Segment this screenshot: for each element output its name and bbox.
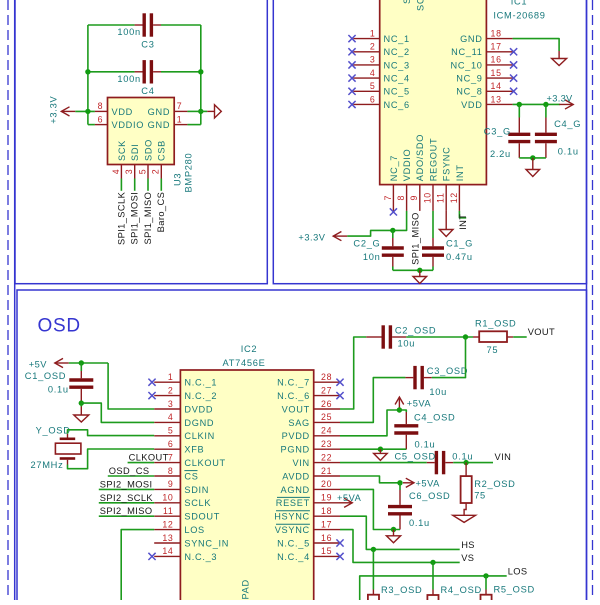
svg-text:6: 6 xyxy=(98,114,104,124)
svg-text:N.C._7: N.C._7 xyxy=(277,378,310,388)
wire Y_OSD to CLKIN pin5 xyxy=(68,430,155,436)
IC2 pin 20 AGND xyxy=(314,488,340,490)
svg-text:20: 20 xyxy=(321,479,332,489)
ground C4_OSD xyxy=(374,449,388,460)
no-connect pin 15 xyxy=(510,75,517,82)
wire R3_OSD feed xyxy=(372,549,374,589)
wire C4 rail left xyxy=(88,71,135,73)
svg-text:10: 10 xyxy=(162,493,173,503)
no-connect pin 3 xyxy=(348,61,355,68)
U3 pin 8 VDD xyxy=(95,110,108,112)
svg-text:22: 22 xyxy=(321,452,332,462)
power output arrow GND flag xyxy=(201,110,207,112)
svg-text:NC_2: NC_2 xyxy=(384,47,410,57)
svg-text:VIN: VIN xyxy=(292,458,309,468)
IC2 pin 15 N.C._4 xyxy=(314,555,340,557)
svg-text:XFB: XFB xyxy=(184,445,204,455)
IC1 pin 18 GND xyxy=(486,38,512,40)
wire REGOUT pin10 to C1_G xyxy=(432,211,434,238)
svg-text:SAG: SAG xyxy=(288,418,310,428)
svg-text:SDOUT: SDOUT xyxy=(184,512,220,522)
svg-text:N.C._1: N.C._1 xyxy=(184,378,217,388)
wire SPI1_MOSI xyxy=(134,179,136,191)
IC2 pin 26 VOUT xyxy=(314,408,340,410)
svg-text:VSYNC: VSYNC xyxy=(275,525,310,535)
svg-text:C3: C3 xyxy=(141,39,154,49)
section box IMU xyxy=(273,0,586,284)
svg-text:5: 5 xyxy=(137,169,147,175)
wire right vertical bus xyxy=(200,25,202,125)
op-amp U3 BMP280 body xyxy=(108,98,175,165)
svg-text:7: 7 xyxy=(177,101,183,111)
svg-text:NC_3: NC_3 xyxy=(384,60,410,70)
svg-text:C5_OSD: C5_OSD xyxy=(395,452,436,462)
IC1 pin 9 ADO/SDO xyxy=(419,185,421,211)
wire CLKOUT pin7 xyxy=(128,462,155,464)
wire AGND pin20 to ground xyxy=(340,489,400,529)
IC2 pin 8 CS xyxy=(154,475,180,477)
svg-text:8: 8 xyxy=(168,466,174,476)
svg-text:NC_4: NC_4 xyxy=(384,74,410,84)
IC2 pin 2 N.C._2 xyxy=(154,395,180,397)
svg-text:CSB: CSB xyxy=(157,140,167,161)
svg-text:PGND: PGND xyxy=(281,445,310,455)
no-connect IC2 pin14 xyxy=(148,553,155,560)
svg-text:NC_5: NC_5 xyxy=(384,87,410,97)
IC1 pin 3 NC_3 xyxy=(353,64,379,66)
ground R2_OSD xyxy=(464,503,466,515)
svg-text:1: 1 xyxy=(370,28,376,38)
sheet border left xyxy=(14,0,16,600)
svg-text:GND: GND xyxy=(460,34,483,44)
IC2 pin 4 DGND xyxy=(154,421,180,423)
junction VS R4_OSD xyxy=(430,560,435,565)
svg-text:26: 26 xyxy=(321,399,332,409)
U3 pin 7 GND xyxy=(174,110,187,112)
no-connect pin 5 xyxy=(348,88,355,95)
svg-text:R1_OSD: R1_OSD xyxy=(475,319,516,329)
svg-text:13: 13 xyxy=(491,94,502,104)
svg-text:GND: GND xyxy=(148,120,171,130)
svg-text:13: 13 xyxy=(162,533,173,543)
IC2 pin 19 RESET xyxy=(314,502,340,504)
wire SPI1_SCLK xyxy=(120,179,122,191)
svg-text:VDDIO: VDDIO xyxy=(402,149,412,182)
ground C6_OSD xyxy=(386,530,400,543)
svg-text:+5VA: +5VA xyxy=(337,493,362,503)
svg-text:N.C._5: N.C._5 xyxy=(277,538,310,548)
IC1 pin 10 REGOUT xyxy=(432,185,434,211)
svg-text:4: 4 xyxy=(370,68,376,78)
svg-text:GND: GND xyxy=(148,107,171,117)
svg-text:HS: HS xyxy=(461,540,475,550)
no-connect pin 7 NC_7 xyxy=(390,208,397,215)
no-connect pin 16 xyxy=(510,61,517,68)
svg-text:C2_OSD: C2_OSD xyxy=(395,325,436,335)
svg-text:6: 6 xyxy=(168,439,174,449)
wire R1_OSD to VOUT xyxy=(513,336,527,338)
IC2 pin 7 CLKOUT xyxy=(154,462,180,464)
capacitor C4 xyxy=(144,60,151,83)
power +5V port xyxy=(55,358,69,367)
svg-text:SDO: SDO xyxy=(143,139,153,161)
resistor R2_OSD xyxy=(465,463,467,477)
wire OSD_CS pin8 xyxy=(108,475,154,477)
svg-text:ADO/SDO: ADO/SDO xyxy=(415,134,425,181)
svg-text:C1_G: C1_G xyxy=(446,239,473,249)
wire SPI2_SCLK pin10 xyxy=(99,502,154,504)
U3 pin 6 VDDIO xyxy=(95,124,108,126)
svg-text:VIN: VIN xyxy=(495,452,512,462)
wire C3_G top xyxy=(518,104,520,117)
svg-text:U3: U3 xyxy=(172,173,182,186)
svg-text:R5_OSD: R5_OSD xyxy=(494,584,535,594)
svg-text:REGOUT: REGOUT xyxy=(428,138,438,182)
svg-text:27: 27 xyxy=(321,385,332,395)
sheet margin dashed left xyxy=(7,0,9,600)
wire C4_G top xyxy=(545,104,547,117)
wire R5_OSD feed xyxy=(485,576,487,590)
IC1 pin 6 NC_6 xyxy=(353,103,379,105)
junction PGND ground xyxy=(378,447,383,452)
IC2 pin 25 SAG xyxy=(314,421,340,423)
IC2 pin 27 N.C._6 xyxy=(314,395,340,397)
wire C3_OSD to VOUT node xyxy=(432,337,466,378)
IC2 pin 23 PGND xyxy=(314,448,340,450)
svg-text:5: 5 xyxy=(370,81,376,91)
svg-text:Y_OSD: Y_OSD xyxy=(36,426,71,436)
svg-text:18: 18 xyxy=(321,506,332,516)
svg-text:C4_OSD: C4_OSD xyxy=(414,413,455,423)
svg-text:CS: CS xyxy=(184,471,198,481)
svg-text:SDI: SDI xyxy=(130,144,140,161)
svg-text:C6_OSD: C6_OSD xyxy=(409,491,450,501)
svg-text:CLKOUT: CLKOUT xyxy=(129,453,169,463)
capacitor C4_G xyxy=(535,134,557,141)
svg-text:12: 12 xyxy=(449,192,459,203)
svg-text:5: 5 xyxy=(168,426,174,436)
IC2 pin 9 SDIN xyxy=(154,488,180,490)
no-connect IC2 pin27 xyxy=(336,392,343,399)
wire PVDD pin24 to 5VA xyxy=(340,410,399,436)
svg-text:SDIN: SDIN xyxy=(184,485,209,495)
wire INT pin12 xyxy=(459,211,466,218)
capacitor C3_OSD xyxy=(415,366,422,389)
svg-text:7: 7 xyxy=(383,195,393,201)
IC2 pin 10 SCLK xyxy=(154,502,180,504)
svg-text:VDD: VDD xyxy=(112,107,134,117)
resistor R3_OSD xyxy=(372,590,374,595)
svg-text:OSD: OSD xyxy=(38,316,81,337)
resistor R4_OSD xyxy=(432,590,434,596)
svg-text:VOUT: VOUT xyxy=(282,404,310,414)
svg-text:R2_OSD: R2_OSD xyxy=(474,479,515,489)
section box OSD xyxy=(17,290,587,605)
svg-text:+5VA: +5VA xyxy=(416,478,441,488)
IC1 pin 17 NC_11 xyxy=(486,51,512,53)
wire VIN pin22 to C5_OSD xyxy=(340,462,427,464)
svg-text:NC_6: NC_6 xyxy=(384,100,410,110)
svg-text:27MHz: 27MHz xyxy=(31,460,64,470)
svg-text:NC_8: NC_8 xyxy=(456,87,482,97)
svg-text:0.1u: 0.1u xyxy=(452,452,473,462)
IC2 pin 5 CLKIN xyxy=(154,435,180,437)
svg-text:SPI2_MOSI: SPI2_MOSI xyxy=(100,479,153,489)
svg-text:R3_OSD: R3_OSD xyxy=(381,585,422,595)
svg-text:10: 10 xyxy=(422,192,432,203)
IC2 pin 14 N.C._3 xyxy=(154,555,180,557)
svg-text:1: 1 xyxy=(177,114,183,124)
svg-text:PVDD: PVDD xyxy=(282,431,310,441)
svg-text:+5VA: +5VA xyxy=(407,398,432,408)
IC2 pin 16 N.C._5 xyxy=(314,542,340,544)
no-connect pin 14 xyxy=(510,88,517,95)
svg-text:INT: INT xyxy=(458,214,468,230)
svg-text:17: 17 xyxy=(321,519,332,529)
wire VSYNC pin17 to VS xyxy=(340,530,460,563)
svg-text:SPI1_MISO: SPI1_MISO xyxy=(143,192,153,245)
svg-text:C2_G: C2_G xyxy=(353,239,380,249)
wire C5_OSD to VIN label xyxy=(453,462,493,464)
power +3.3V port (barometer) xyxy=(61,107,75,116)
svg-text:SCLK: SCLK xyxy=(184,498,211,508)
svg-text:NC_7: NC_7 xyxy=(389,155,399,181)
svg-text:14: 14 xyxy=(162,546,173,556)
svg-text:C4_G: C4_G xyxy=(554,119,581,129)
capacitor C2_OSD xyxy=(383,325,390,348)
svg-text:VDDIO: VDDIO xyxy=(112,120,145,130)
wire VDD pin13 rail xyxy=(513,103,560,105)
svg-text:IC2: IC2 xyxy=(241,344,258,354)
svg-text:R4_OSD: R4_OSD xyxy=(441,585,482,595)
wire GND pin7 to bus xyxy=(187,110,200,112)
svg-text:7: 7 xyxy=(168,452,174,462)
svg-text:SPI1_SCLK: SPI1_SCLK xyxy=(116,191,126,245)
power +5VA port (AVDD) xyxy=(403,478,414,487)
IC2 pin 11 SDOUT xyxy=(154,515,180,517)
svg-text:12: 12 xyxy=(162,519,173,529)
IC1 pin 11 FSYNC xyxy=(445,185,447,211)
svg-text:OSD_CS: OSD_CS xyxy=(109,466,150,476)
IC2 pin 6 XFB xyxy=(154,448,180,450)
svg-text:NC_10: NC_10 xyxy=(450,60,482,70)
IC2 pin 1 N.C._1 xyxy=(154,381,180,383)
junction VDD C3_G xyxy=(517,102,522,107)
svg-text:Baro_CS: Baro_CS xyxy=(156,192,166,233)
wire +5V to DVDD pin3 xyxy=(108,363,154,409)
svg-text:AT7456E: AT7456E xyxy=(223,358,266,368)
wire C1_OSD top xyxy=(80,363,82,371)
svg-text:N.C._2: N.C._2 xyxy=(184,391,217,401)
svg-text:+3.3V: +3.3V xyxy=(298,233,325,243)
U3 pin 3 SDI xyxy=(134,165,136,179)
svg-text:24: 24 xyxy=(321,426,332,436)
junction +5V C1_OSD xyxy=(79,360,84,365)
svg-text:NC_11: NC_11 xyxy=(451,47,482,57)
svg-text:9: 9 xyxy=(168,479,174,489)
no-connect IC2 pin16 xyxy=(336,539,343,546)
wire PGND pin23 rail xyxy=(340,448,406,450)
svg-text:AGND: AGND xyxy=(281,485,310,495)
svg-text:DVDD: DVDD xyxy=(184,404,213,414)
svg-text:CLKIN: CLKIN xyxy=(184,431,215,441)
no-connect pin 2 xyxy=(348,48,355,55)
svg-text:IC1: IC1 xyxy=(511,0,528,7)
capacitor C3_G xyxy=(508,134,530,141)
resistor R1_OSD xyxy=(473,336,513,338)
svg-text:+3.3V: +3.3V xyxy=(49,96,59,124)
svg-text:VDD: VDD xyxy=(461,100,483,110)
svg-text:BMP280: BMP280 xyxy=(183,153,193,193)
wire left vertical bus xyxy=(87,25,89,125)
no-connect IC2 pin28 xyxy=(336,379,343,386)
ground C2_G C1_G xyxy=(413,270,427,283)
svg-text:18: 18 xyxy=(491,28,502,38)
IC1 pin 7 NC_7 xyxy=(392,185,394,211)
svg-text:C4: C4 xyxy=(141,86,154,96)
capacitor C2_G xyxy=(382,248,404,255)
capacitor C4_OSD xyxy=(394,426,418,433)
svg-text:9: 9 xyxy=(409,195,419,201)
svg-text:NC_1: NC_1 xyxy=(384,34,410,44)
wire VDDIO pin8 to 3V3 rail xyxy=(347,211,406,236)
svg-text:PAD: PAD xyxy=(241,579,251,599)
junction VIN R2_OSD xyxy=(463,460,468,465)
svg-text:AVDD: AVDD xyxy=(282,471,310,481)
overline HSYNC pin18 xyxy=(276,510,310,512)
ground C3_G C4_G xyxy=(526,158,540,177)
sheet margin dashed right xyxy=(592,0,594,600)
capacitor C3 xyxy=(144,13,151,36)
svg-text:3: 3 xyxy=(370,55,376,65)
IC2 pin 12 LOS xyxy=(154,529,180,531)
junction VDD C4_G xyxy=(543,102,548,107)
junction HS R3_OSD xyxy=(371,547,376,552)
overline RESET pin19 xyxy=(277,496,310,498)
power +5VA port (RESET pin19) xyxy=(340,498,353,507)
svg-text:75: 75 xyxy=(487,345,499,355)
IC1 pin 14 NC_8 xyxy=(486,90,512,92)
svg-text:16: 16 xyxy=(321,533,332,543)
capacitor C1_G xyxy=(422,248,444,255)
IC2 pin 24 PVDD xyxy=(314,435,340,437)
wire VOUT pin26 to C2_OSD xyxy=(340,337,366,409)
wire Y_OSD to XFB pin6 xyxy=(68,449,155,469)
svg-text:SYNC_IN: SYNC_IN xyxy=(184,538,229,548)
IC1 pin 16 NC_10 xyxy=(486,64,512,66)
svg-text:SPI2_SCLK: SPI2_SCLK xyxy=(100,493,154,503)
svg-text:1: 1 xyxy=(168,372,174,382)
IC2 pin 18 HSYNC xyxy=(314,515,340,517)
svg-text:10n: 10n xyxy=(363,252,381,262)
IC1 pin 1 NC_1 xyxy=(353,38,379,40)
junction 5VA C4_OSD xyxy=(397,407,402,412)
wire C3_G C4_G bottom rail xyxy=(519,157,546,159)
no-connect IC2 pin2 xyxy=(148,392,155,399)
power +5VA port (PVDD) xyxy=(395,397,404,410)
svg-text:4: 4 xyxy=(111,169,121,175)
IC2 pin 13 SYNC_IN xyxy=(154,542,180,544)
junction ground rail G xyxy=(530,155,535,160)
overline CS pin8 xyxy=(184,470,197,472)
U3 pin 2 CSB xyxy=(160,165,162,179)
svg-text:SPI2_MISO: SPI2_MISO xyxy=(100,506,153,516)
svg-text:CLKOUT: CLKOUT xyxy=(184,458,225,468)
junction C2_G top xyxy=(390,228,395,233)
svg-text:SPI1_MISO: SPI1_MISO xyxy=(410,212,420,265)
junction ground rail xyxy=(417,268,422,273)
IC1 pin 8 VDDIO xyxy=(406,185,408,211)
IC1 pin 15 NC_9 xyxy=(486,77,512,79)
svg-text:8: 8 xyxy=(396,195,406,201)
svg-text:16: 16 xyxy=(491,55,502,65)
wire SPI1_MISO xyxy=(147,179,149,191)
wire LOS bottom rail xyxy=(360,576,507,601)
svg-text:N.C._3: N.C._3 xyxy=(184,552,217,562)
no-connect pin 17 xyxy=(510,48,517,55)
no-connect pin 4 xyxy=(348,75,355,82)
ground FSYNC pin11 xyxy=(445,211,447,230)
wire C2_G top xyxy=(392,230,394,238)
svg-text:0.1u: 0.1u xyxy=(409,518,430,528)
U3 pin 1 GND xyxy=(174,124,187,126)
wire R4_OSD feed xyxy=(432,562,434,589)
svg-text:N.C._6: N.C._6 xyxy=(277,391,310,401)
sheet border right xyxy=(586,0,588,600)
svg-text:19: 19 xyxy=(321,493,332,503)
wire C2_G C1_G bottom rail xyxy=(392,267,394,271)
svg-text:2: 2 xyxy=(151,169,161,175)
svg-text:FSYNC: FSYNC xyxy=(442,147,452,182)
wire +5V rail xyxy=(69,362,108,364)
junction 5VA C6_OSD xyxy=(397,480,402,485)
no-connect IC2 pin1 xyxy=(148,379,155,386)
svg-text:RESET: RESET xyxy=(276,498,310,508)
svg-text:2: 2 xyxy=(168,385,174,395)
svg-text:3: 3 xyxy=(124,169,134,175)
capacitor C1_OSD xyxy=(69,380,93,387)
svg-text:+5V: +5V xyxy=(29,360,48,370)
svg-text:C3_OSD: C3_OSD xyxy=(427,366,468,376)
wire C3 top rail right xyxy=(161,24,201,26)
ground IC1 GND xyxy=(552,51,567,66)
svg-text:11: 11 xyxy=(436,192,446,203)
junction VOUT node xyxy=(463,334,468,339)
no-connect pin 1 xyxy=(348,35,355,42)
junction left C4 xyxy=(85,69,90,74)
no-connect pin 6 xyxy=(348,101,355,108)
svg-text:17: 17 xyxy=(491,42,502,52)
wire C4_OSD top xyxy=(399,410,406,412)
IC1 pin 12 INT xyxy=(458,185,460,211)
wire AVDD pin21 to 5VA xyxy=(340,476,400,483)
IC1 pin 13 VDD xyxy=(486,103,512,105)
wire SAG pin25 to C3_OSD xyxy=(340,378,405,423)
wire C2_OSD to R1_OSD xyxy=(406,336,473,338)
svg-text:0.1u: 0.1u xyxy=(48,384,69,394)
svg-text:NC_9: NC_9 xyxy=(456,74,482,84)
svg-text:11: 11 xyxy=(163,506,174,516)
overline VSYNC pin17 xyxy=(276,523,310,525)
svg-text:ICM-20689: ICM-20689 xyxy=(493,10,545,20)
svg-text:LOS: LOS xyxy=(508,567,528,577)
IC1 ICM-20689 body xyxy=(380,0,487,185)
capacitor C6_OSD xyxy=(388,507,412,514)
svg-text:21: 21 xyxy=(321,466,332,476)
capacitor C5_OSD xyxy=(436,451,443,474)
svg-text:0.1u: 0.1u xyxy=(558,147,579,157)
no-connect IC2 pin15 xyxy=(336,553,343,560)
